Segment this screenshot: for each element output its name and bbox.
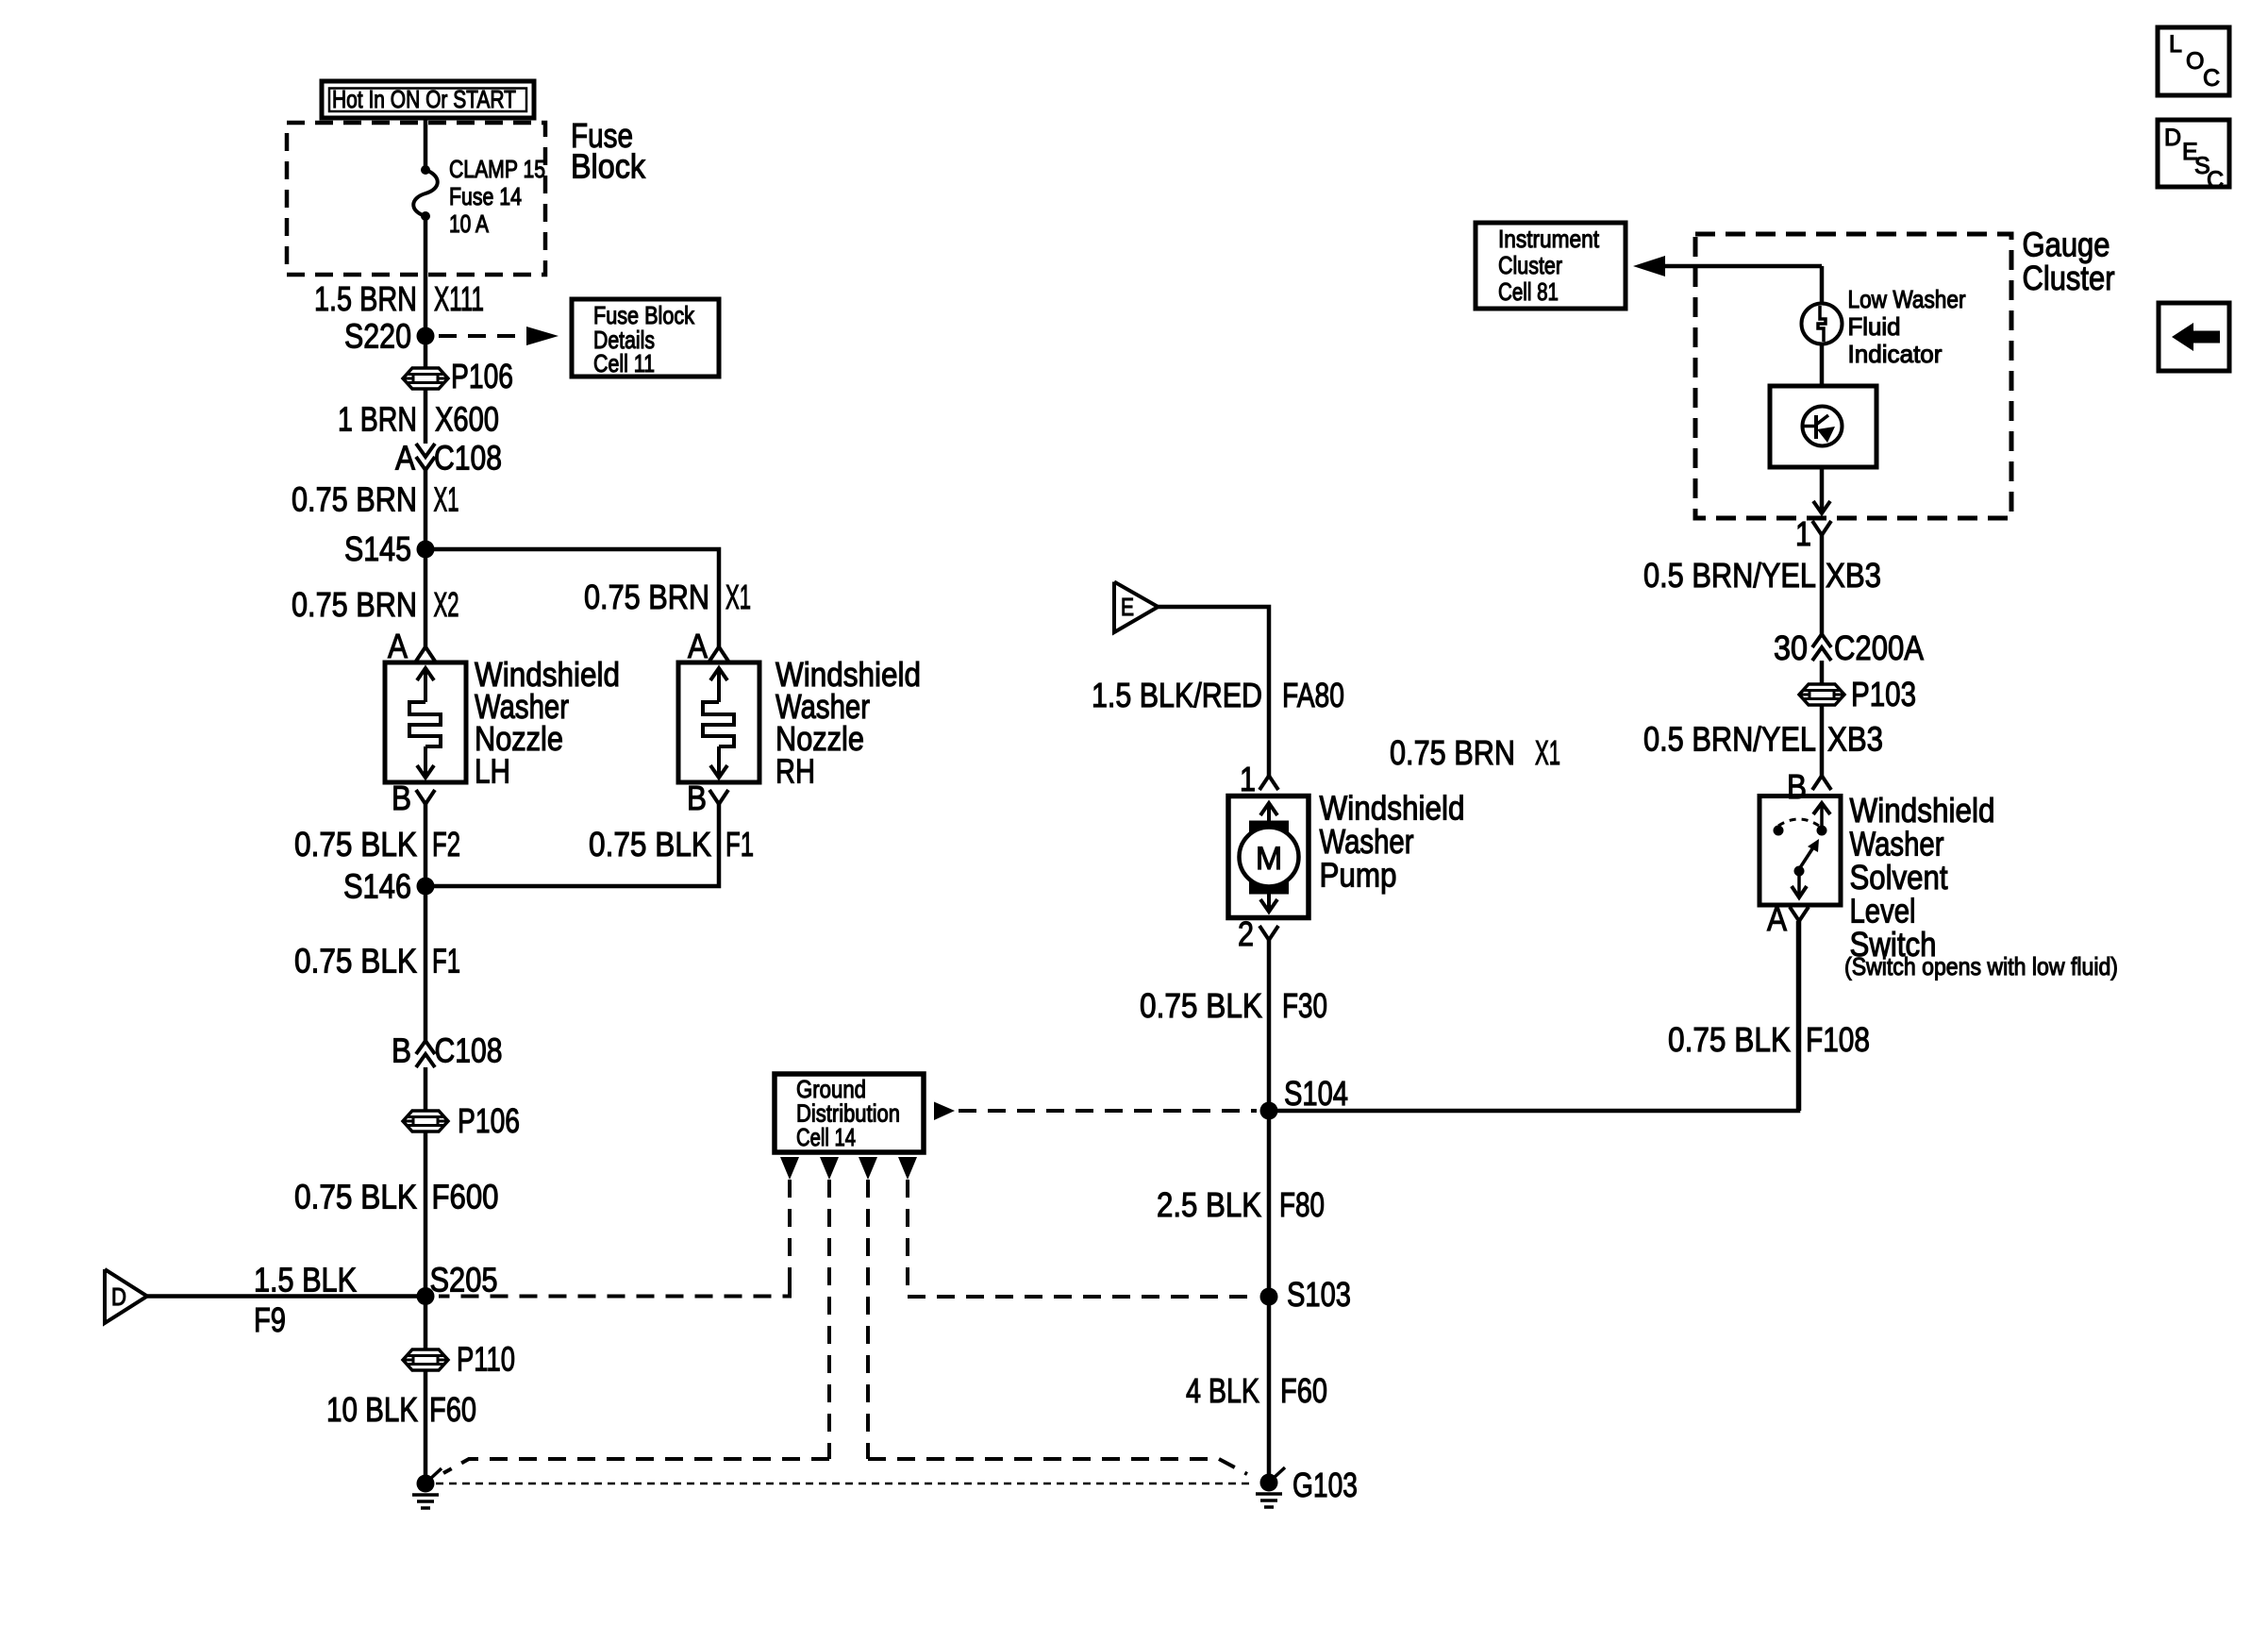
branch wire S145 to RH nozzle: [425, 549, 719, 647]
svg-text:F80: F80: [1279, 1185, 1325, 1224]
wire 0.5 BRN/YEL XB3 upper: [1643, 535, 1881, 634]
svg-text:P110: P110: [457, 1340, 515, 1379]
svg-text:B: B: [392, 779, 411, 817]
hot in on or start box: [322, 81, 534, 118]
svg-text:S103: S103: [1287, 1275, 1351, 1314]
svg-text:4 BLK: 4 BLK: [1186, 1371, 1259, 1410]
svg-text:B: B: [1787, 767, 1807, 806]
wire S205 to P110: [424, 1297, 428, 1350]
svg-text:Cell 81: Cell 81: [1498, 277, 1559, 306]
svg-text:M: M: [1256, 841, 1282, 877]
svg-text:F9: F9: [254, 1300, 286, 1339]
wire 1.5 BLK/RED FA80: [1092, 607, 1344, 776]
svg-text:X1: X1: [434, 480, 459, 519]
wire gauge box down with arrow: [1813, 467, 1830, 513]
windshield washer pump box: [1228, 796, 1309, 918]
connector P110: [403, 1340, 515, 1379]
dashed wire to S103: [908, 1180, 1257, 1297]
svg-text:F2: F2: [432, 825, 460, 863]
DESC box: [2158, 120, 2229, 193]
svg-text:F108: F108: [1806, 1020, 1870, 1059]
svg-text:(Switch opens with low fluid): (Switch opens with low fluid): [1844, 952, 2118, 981]
leader arrow ground distribution to S104: [934, 1102, 1257, 1121]
svg-text:S104: S104: [1284, 1074, 1348, 1113]
back arrow box: [2159, 303, 2229, 371]
ground dist arrowhead 2: [820, 1157, 839, 1180]
wire indicator to gauge: [1820, 344, 1825, 386]
node S205: [417, 1261, 498, 1306]
connector P106 lower: [403, 1101, 520, 1140]
low washer fluid indicator label: [1848, 285, 1966, 368]
pump pin 1: [1240, 760, 1278, 798]
svg-text:F600: F600: [432, 1178, 499, 1216]
windshield washer nozzle LH label: [475, 655, 620, 791]
svg-text:C108: C108: [434, 439, 502, 478]
node S145: [344, 529, 435, 568]
label 0.75 BRN X1 floating: [1390, 733, 1560, 772]
svg-text:O: O: [2186, 48, 2204, 75]
svg-text:A: A: [688, 627, 708, 665]
svg-text:1.5 BLK/RED: 1.5 BLK/RED: [1092, 676, 1262, 714]
LOC box: [2158, 27, 2229, 95]
dashed wire to S205: [439, 1180, 790, 1297]
svg-text:F1: F1: [725, 825, 754, 863]
wire to P103: [1820, 661, 1825, 684]
svg-text:10 BLK: 10 BLK: [326, 1390, 418, 1429]
label 0.75 BRN X1 right branch: [584, 578, 751, 616]
instrument cluster cell 81 box: [1476, 223, 1626, 309]
fine dashed wire between grounds: [436, 1483, 1255, 1485]
wire 0.75 BRN X2: [292, 549, 459, 647]
svg-text:1: 1: [1240, 760, 1256, 798]
LH nozzle pin B: [392, 779, 435, 817]
fuse CLAMP 15 Fuse 14 10 A: [413, 155, 545, 238]
gauge sender box: [1770, 386, 1876, 467]
svg-text:Cell 11: Cell 11: [593, 349, 655, 377]
svg-text:Cluster: Cluster: [2023, 259, 2115, 297]
wire to P106: [424, 1067, 428, 1111]
node S104: [1260, 1074, 1349, 1120]
wire S220 to P106: [424, 336, 428, 368]
connector C108 pin B: [392, 1031, 503, 1070]
switch pin A: [1767, 899, 1809, 938]
svg-text:Low Washer: Low Washer: [1848, 285, 1966, 313]
low washer fluid indicator lamp: [1802, 304, 1843, 344]
svg-text:1.5 BRN: 1.5 BRN: [314, 279, 417, 318]
svg-text:F60: F60: [1280, 1371, 1327, 1410]
svg-text:0.75 BRN: 0.75 BRN: [1390, 733, 1515, 772]
ground distribution cell 14 box: [775, 1074, 924, 1152]
svg-text:C: C: [2203, 65, 2220, 92]
arrow to instrument cluster: [1633, 256, 1822, 277]
svg-text:E: E: [1121, 593, 1134, 621]
windshield washer solvent level switch label: [1844, 791, 2118, 981]
svg-text:0.5 BRN/YEL: 0.5 BRN/YEL: [1643, 556, 1816, 595]
node S103: [1260, 1275, 1352, 1314]
svg-text:S205: S205: [430, 1261, 498, 1299]
wire 0.5 BRN/YEL XB3 lower: [1643, 705, 1883, 776]
svg-text:Fuse 14: Fuse 14: [449, 182, 522, 210]
svg-text:0.75 BLK: 0.75 BLK: [294, 825, 417, 863]
svg-text:X1: X1: [725, 578, 751, 616]
svg-text:Cluster: Cluster: [1498, 251, 1562, 279]
svg-text:A: A: [388, 627, 408, 665]
svg-text:B: B: [392, 1031, 411, 1070]
svg-text:S145: S145: [344, 529, 411, 568]
svg-text:XB3: XB3: [1827, 720, 1883, 759]
dashed wire to G103: [868, 1180, 1247, 1474]
svg-text:F60: F60: [429, 1390, 476, 1429]
svg-text:P106: P106: [451, 357, 513, 395]
connector P106: [403, 357, 513, 395]
wire 0.75 BLK F108: [1668, 921, 1870, 1111]
LH nozzle pin A: [388, 627, 435, 665]
connector E triangle: [1114, 582, 1159, 633]
svg-text:30: 30: [1774, 629, 1808, 667]
fuse block details cell 11 box: [572, 299, 719, 377]
svg-text:Hot In ON Or START: Hot In ON Or START: [332, 85, 516, 113]
svg-text:0.75 BLK: 0.75 BLK: [294, 1178, 417, 1216]
connector C108 pin A: [395, 439, 502, 478]
switch internals: [1774, 803, 1831, 897]
svg-text:0.75 BRN: 0.75 BRN: [292, 480, 417, 519]
svg-text:Indicator: Indicator: [1848, 340, 1943, 368]
svg-text:FA80: FA80: [1282, 676, 1344, 714]
windshield washer nozzle LH box: [385, 662, 466, 782]
svg-text:0.5 BRN/YEL: 0.5 BRN/YEL: [1643, 720, 1816, 759]
svg-text:X600: X600: [435, 400, 499, 439]
gauge cluster label: [2023, 226, 2115, 298]
ground dist arrowhead 4: [898, 1157, 917, 1180]
svg-text:P103: P103: [1851, 675, 1916, 713]
svg-text:S146: S146: [343, 867, 411, 906]
svg-text:L: L: [2169, 31, 2182, 58]
svg-text:2: 2: [1238, 914, 1254, 953]
ground left: [412, 1468, 442, 1508]
svg-text:G103: G103: [1292, 1466, 1358, 1504]
ground dist arrowhead 1: [780, 1157, 799, 1180]
svg-text:X111: X111: [434, 279, 484, 318]
svg-text:1: 1: [1795, 514, 1811, 553]
wire 4 BLK F60: [1186, 1297, 1327, 1483]
fuse block label: [571, 116, 646, 186]
svg-text:C108: C108: [435, 1031, 503, 1070]
svg-text:Pump: Pump: [1320, 856, 1397, 895]
svg-text:0.75 BRN: 0.75 BRN: [292, 585, 417, 624]
svg-text:0.75 BLK: 0.75 BLK: [1140, 986, 1262, 1025]
gauge cluster dashed box: [1695, 234, 2011, 518]
windshield washer nozzle RH box: [678, 662, 759, 782]
svg-text:1 BRN: 1 BRN: [338, 400, 417, 439]
svg-text:Cell 14: Cell 14: [796, 1123, 856, 1151]
windshield washer nozzle RH label: [775, 655, 921, 791]
node S146: [343, 867, 435, 906]
ground G103: [1256, 1466, 1358, 1507]
wire arrow corner to indicator: [1820, 266, 1825, 304]
wire 0.75 BRN X1: [292, 470, 459, 549]
svg-text:A: A: [1767, 899, 1787, 938]
svg-text:XB3: XB3: [1826, 556, 1881, 595]
dashed wire to left ground: [443, 1180, 829, 1473]
svg-text:CLAMP 15: CLAMP 15: [449, 155, 545, 183]
wire 0.75 BLK F1 right branch: [425, 804, 754, 886]
svg-text:0.75 BLK: 0.75 BLK: [294, 942, 417, 981]
fuse block dashed box: [287, 123, 545, 275]
svg-text:A: A: [395, 439, 415, 478]
wire 0.75 BLK F2: [294, 804, 460, 886]
wire 2.5 BLK F80: [1157, 1111, 1325, 1297]
pump motor M: [1240, 803, 1299, 912]
svg-text:Instrument: Instrument: [1498, 225, 1600, 253]
svg-text:Fluid: Fluid: [1848, 312, 1901, 341]
svg-text:RH: RH: [775, 752, 815, 791]
wire 0.75 BLK F600: [294, 1131, 499, 1297]
wire from hot box to fuse: [424, 118, 428, 170]
svg-text:2.5 BLK: 2.5 BLK: [1157, 1185, 1261, 1224]
svg-text:X2: X2: [434, 585, 459, 624]
connector C200A pin 30: [1774, 629, 1924, 667]
connector P103: [1799, 675, 1916, 713]
wire 0.75 BLK F1: [294, 886, 460, 1041]
wire S104 to switch: [1269, 921, 1798, 1111]
svg-text:0.75 BRN: 0.75 BRN: [584, 578, 709, 616]
windshield washer pump label: [1320, 789, 1465, 895]
svg-text:C: C: [2207, 167, 2224, 193]
RH nozzle pin B: [687, 779, 728, 817]
dashed leader S220 to fuse block details: [439, 327, 559, 345]
connector D triangle: [105, 1269, 147, 1323]
switch pin B: [1787, 767, 1831, 806]
wire 1.5 BRN X111: [314, 216, 484, 336]
wire 0.75 BLK F30: [1140, 940, 1327, 1111]
svg-text:P106: P106: [458, 1101, 520, 1140]
svg-text:1.5 BLK: 1.5 BLK: [254, 1261, 357, 1299]
pump pin 2: [1238, 914, 1278, 953]
svg-text:B: B: [687, 779, 707, 817]
svg-text:10 A: 10 A: [449, 210, 490, 238]
gauge cluster pin 1: [1795, 514, 1831, 553]
svg-text:Block: Block: [571, 147, 646, 186]
svg-text:S220: S220: [344, 317, 411, 356]
windshield washer solvent level switch box: [1759, 796, 1841, 906]
ground dist arrowhead 3: [859, 1157, 877, 1180]
node S220: [344, 317, 435, 356]
wire 1 BRN X600: [338, 389, 499, 444]
svg-text:0.75 BLK: 0.75 BLK: [1668, 1020, 1791, 1059]
svg-text:X1: X1: [1535, 733, 1560, 772]
svg-text:F30: F30: [1282, 986, 1327, 1025]
svg-text:D: D: [2164, 125, 2181, 151]
RH nozzle pin A: [688, 627, 728, 665]
svg-text:0.75 BLK: 0.75 BLK: [589, 825, 711, 863]
svg-text:LH: LH: [475, 752, 510, 791]
svg-text:C200A: C200A: [1834, 629, 1924, 667]
wire 10 BLK F60: [326, 1370, 476, 1484]
svg-text:D: D: [111, 1282, 126, 1311]
svg-text:F1: F1: [432, 942, 460, 981]
wire 1.5 BLK F9 from D: [147, 1261, 425, 1340]
